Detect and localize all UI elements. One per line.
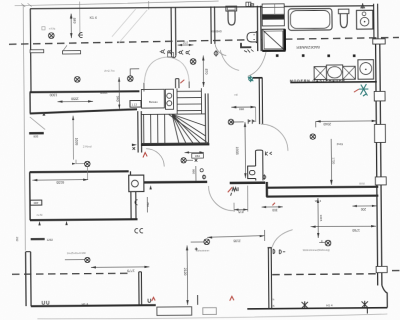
svg-text:400: 400 (33, 201, 38, 205)
svg-text:Kind: Kind (337, 142, 343, 146)
svg-text:728: 728 (195, 154, 200, 158)
svg-text:=77b: =77b (49, 27, 56, 31)
svg-text:WI 4: WI 4 (315, 199, 322, 203)
svg-text:6155: 6155 (56, 180, 64, 184)
svg-text:BADEZIMMER: BADEZIMMER (296, 45, 320, 49)
svg-text:zu M: zu M (36, 213, 43, 217)
svg-text:849: 849 (72, 18, 76, 24)
svg-text:1720: 1720 (331, 157, 335, 164)
svg-text:14+25+91+4=160: 14+25+91+4=160 (67, 252, 87, 255)
svg-text:292: 292 (15, 237, 19, 242)
svg-text:2195: 2195 (233, 239, 240, 243)
svg-text:615: 615 (238, 210, 244, 214)
svg-text:H1 4: H1 4 (82, 302, 89, 306)
svg-text:2120: 2120 (183, 268, 187, 276)
svg-text:MODERN GASTEBADER: MODERN GASTEBADER (290, 79, 345, 83)
svg-text:200: 200 (361, 207, 367, 211)
svg-text:1760: 1760 (352, 228, 360, 232)
svg-text:H1 4: H1 4 (326, 303, 333, 307)
svg-text:990: 990 (192, 169, 196, 174)
svg-text:950: 950 (239, 107, 244, 111)
svg-text:KIN.BAD: KIN.BAD (211, 29, 222, 33)
svg-text:1699: 1699 (74, 138, 78, 146)
svg-text:2040: 2040 (323, 122, 331, 126)
svg-text:K: K (273, 304, 275, 308)
svg-text:940: 940 (115, 96, 119, 102)
svg-text:1900: 1900 (100, 90, 108, 94)
svg-text:750: 750 (146, 202, 150, 207)
svg-text:1292: 1292 (47, 238, 54, 242)
svg-text:K1 4: K1 4 (90, 16, 97, 20)
svg-text:2 Kind: 2 Kind (83, 144, 92, 148)
svg-text:300: 300 (272, 208, 278, 212)
svg-text:1300: 1300 (49, 93, 57, 97)
svg-text:W.M.: W.M. (359, 182, 365, 186)
svg-text:Bureau: Bureau (149, 100, 158, 104)
svg-text:508: 508 (33, 134, 38, 138)
svg-text:1757: 1757 (182, 41, 188, 44)
svg-text:mtl: mtl (234, 93, 238, 97)
svg-text:A=2.7m: A=2.7m (104, 69, 115, 73)
svg-text:1.13: 1.13 (131, 103, 137, 107)
svg-text:wohnzimmer: wohnzimmer (196, 249, 210, 252)
svg-text:870: 870 (204, 69, 208, 75)
svg-text:1935: 1935 (235, 147, 239, 155)
svg-text:1615: 1615 (319, 215, 323, 222)
svg-text:1550: 1550 (71, 97, 79, 101)
svg-text:Wohnzimmer(Wohnung): Wohnzimmer(Wohnung) (303, 249, 330, 252)
svg-text:1779: 1779 (127, 268, 135, 272)
